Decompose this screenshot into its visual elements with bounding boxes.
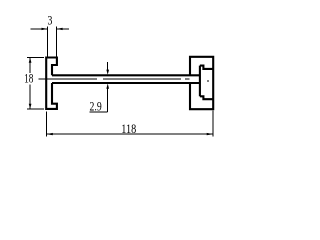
dim18 line upper (29, 58, 31, 73)
right channel inner bottom step (200, 96, 213, 99)
dim118 arrow left (46, 133, 53, 135)
dim2.9 lower arrow line (107, 88, 109, 112)
dim118 arrow right (207, 133, 214, 135)
svg-text:18: 18 (24, 72, 33, 86)
dim3 line left tail (30, 28, 47, 30)
dim3 extension line right (56, 27, 58, 57)
dim2.9 upper arrow line (107, 62, 109, 70)
dim118 extension line right (212, 110, 214, 136)
dim3 extension line left (47, 27, 49, 57)
svg-text:118: 118 (121, 122, 136, 136)
dim118 line (46, 133, 213, 135)
svg-text:3: 3 (47, 14, 52, 28)
dim18 arrow up (29, 58, 32, 63)
dim18 arrow down (29, 104, 32, 109)
right channel inner vertical (199, 66, 201, 97)
dim3 arrow left (42, 28, 48, 30)
centerline dash 1 (39, 78, 98, 80)
dim18 extension line top (27, 56, 44, 58)
right channel inner top step (200, 66, 213, 69)
dim3 line right tail (57, 28, 69, 30)
svg-text:2.9: 2.9 (90, 100, 102, 114)
centerline dash 3 (185, 78, 189, 80)
web top line (52, 74, 200, 76)
centerline dot (207, 80, 209, 82)
dim2.9 underline (90, 111, 108, 113)
dim118 extension line left (45, 112, 47, 137)
left channel outline (46, 58, 57, 109)
dim2.9 arrow down (106, 70, 109, 75)
dim18 line lower (29, 84, 31, 109)
dim18 extension line bottom (27, 108, 44, 110)
dim2.9 arrow up (106, 84, 109, 89)
web bottom line (52, 82, 200, 84)
centerline dash 2 (103, 78, 181, 80)
right channel outer outline (190, 57, 213, 109)
dim3 arrow right (57, 28, 63, 30)
